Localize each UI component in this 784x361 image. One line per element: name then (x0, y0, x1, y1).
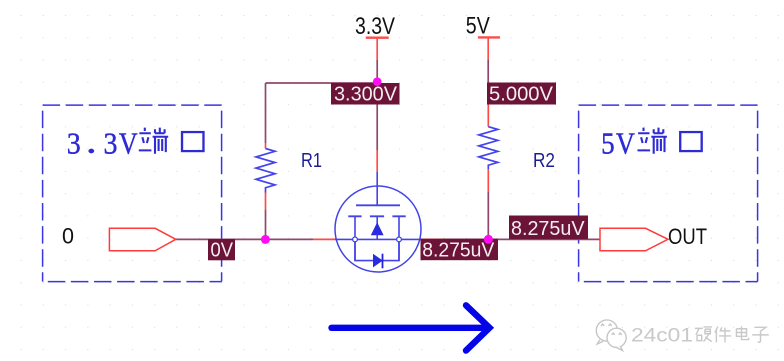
port box 5V (dashed blue rectangle) (579, 105, 758, 282)
resistor R1 (256, 149, 275, 193)
label 3.3V端口 (67, 126, 139, 161)
wire R1 bottom to node (265, 210, 267, 239)
probe 0V (208, 239, 235, 262)
transistor Q1 source stub (354, 216, 356, 260)
resistor R2 (479, 127, 498, 169)
pin R1 bottom (265, 193, 267, 211)
label 5V端口 (601, 126, 635, 161)
power bar 5V (478, 36, 500, 38)
svg-text:3: 3 (104, 126, 118, 161)
svg-text:0V: 0V (211, 239, 234, 262)
svg-text:5: 5 (601, 126, 615, 161)
svg-text:5V: 5V (466, 12, 490, 39)
wire gate vertical (376, 105, 378, 151)
port IN connector (109, 228, 175, 251)
probe 8.275uV left (421, 238, 499, 261)
svg-text:OUT: OUT (668, 224, 707, 249)
node junction dot (3.3V rail) (373, 77, 382, 86)
power pin 3.3V (376, 38, 378, 60)
glyph 口 (680, 132, 701, 151)
transistor Q1 drain pin dot (397, 237, 402, 242)
svg-text:3: 3 (67, 126, 81, 161)
svg-text:5.000V: 5.000V (489, 83, 553, 106)
annotation arrow (direction) (332, 305, 490, 350)
transistor Q1 channel segments (348, 215, 405, 217)
port box 3.3V (dashed blue rectangle) (43, 105, 222, 282)
transistor Q1 conduction line (335, 238, 421, 240)
pin R1 top (265, 143, 267, 149)
glyph 端 (139, 128, 168, 154)
transistor Q1 body diode loop (355, 239, 399, 260)
wire gate branch horizontal (266, 82, 378, 84)
wire 5V rail to probe (487, 60, 489, 83)
wire R2 bottom to node (487, 192, 489, 239)
transistor Q1 MOSFET body circle (335, 186, 421, 272)
pin R2 bottom (487, 169, 489, 192)
glyph 硬 (695, 327, 712, 342)
node junction dot (right net) (484, 235, 493, 244)
pin MOSFET source (left) (313, 238, 336, 240)
power bar 3.3V (366, 37, 389, 39)
glyph 电 (736, 326, 748, 339)
svg-text:0: 0 (62, 224, 74, 249)
transistor Q1 source pin dot (353, 237, 358, 242)
glyph 件 (715, 327, 731, 343)
svg-text:24c01: 24c01 (631, 325, 693, 346)
svg-text:8.275uV: 8.275uV (422, 238, 494, 261)
svg-text:R1: R1 (301, 149, 322, 172)
pin MOSFET gate (376, 150, 378, 172)
glyph 口 (182, 132, 203, 151)
port OUT connector (600, 228, 668, 251)
glyph 端 (638, 128, 667, 154)
diode D1 body diode (373, 254, 383, 268)
node junction dot (left net) (261, 235, 270, 244)
probe 3.300V (331, 83, 400, 106)
watermark logo chat bubbles (596, 320, 626, 351)
svg-text:3.300V: 3.300V (334, 83, 397, 106)
power pin 5V (487, 37, 489, 60)
wire main net left: port to MOSFET (176, 238, 313, 240)
pin R2 top (487, 105, 489, 127)
svg-text:R2: R2 (533, 149, 555, 172)
transistor Q1 drain stub (398, 216, 400, 260)
wire main net right: MOSFET to port (443, 238, 600, 240)
probe 8.275uV right (509, 216, 588, 241)
glyph 子 (752, 327, 769, 342)
transistor Q1 gate lead (376, 172, 378, 205)
svg-text:8.275uV: 8.275uV (511, 217, 585, 240)
probe 5.000V (487, 83, 556, 106)
transistor Q1 gate bar (356, 204, 400, 206)
transistor Q1 substrate arrow (376, 216, 378, 224)
svg-text:V: V (119, 126, 138, 161)
pin MOSFET drain (right) (421, 238, 444, 240)
svg-text:V: V (616, 126, 636, 161)
wire R1 top vertical (265, 83, 267, 143)
svg-text:3.3V: 3.3V (355, 13, 395, 40)
wire 3.3V rail to node (376, 60, 378, 105)
